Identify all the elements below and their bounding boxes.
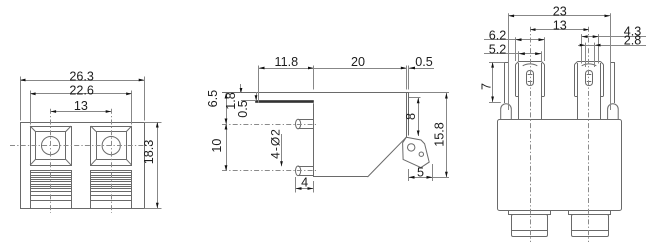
dim 6.5 line xyxy=(226,93,228,124)
svg-text:5.2: 5.2 xyxy=(489,43,507,57)
front centerline 2 xyxy=(588,27,590,242)
side view right edge double line xyxy=(406,93,408,137)
pin 2 side profile xyxy=(296,166,301,176)
dim 4.3 line xyxy=(582,36,646,38)
dim 5 extension lines xyxy=(408,169,410,181)
dim 10 line xyxy=(226,124,228,171)
svg-text:2.8: 2.8 xyxy=(624,33,642,47)
bracket hole large xyxy=(408,144,415,151)
pin 2 centerline xyxy=(222,170,316,172)
dim 0.5 plate arrow xyxy=(256,92,258,100)
svg-text:8: 8 xyxy=(404,113,418,120)
side view top edge xyxy=(222,92,409,94)
cavity 1 circle xyxy=(42,137,60,155)
svg-text:18.3: 18.3 xyxy=(142,140,156,165)
svg-text:0.5: 0.5 xyxy=(236,100,250,118)
front view body outline xyxy=(498,120,622,211)
blade 1 dimple arc xyxy=(523,64,538,66)
dim 13 front line xyxy=(530,29,589,31)
boss dome 1 xyxy=(501,104,512,120)
cavity 2 square funnel xyxy=(91,127,132,166)
svg-text:0.5: 0.5 xyxy=(415,55,433,69)
dim 20 line xyxy=(314,68,407,70)
dim 18.3 extension lines xyxy=(144,122,161,124)
bottom socket foot 2 xyxy=(569,211,611,215)
svg-text:13: 13 xyxy=(74,99,88,113)
dim 1.8 arrows xyxy=(240,84,242,93)
horizontal centerline xyxy=(10,145,152,147)
dim 5.2 line xyxy=(484,53,541,55)
svg-text:6.5: 6.5 xyxy=(206,90,220,108)
svg-text:13: 13 xyxy=(553,18,567,32)
dim 7 extension lines xyxy=(489,62,505,64)
dim 4 extension lines xyxy=(295,177,297,193)
boss dome 2 xyxy=(608,104,619,120)
dim 26.3 line xyxy=(20,80,144,82)
blade terminal 1 (face) xyxy=(515,65,517,97)
dim 4.3 extension lines xyxy=(581,34,583,63)
pin 1 side profile xyxy=(296,119,301,129)
dim 23 extension lines xyxy=(508,13,510,110)
svg-text:22.6: 22.6 xyxy=(69,83,94,97)
dim 15.8 line xyxy=(446,93,448,177)
dim 7 line xyxy=(492,62,494,102)
svg-text:15.8: 15.8 xyxy=(433,122,447,147)
dim 4 line xyxy=(296,188,314,190)
dim 18.3 line xyxy=(157,122,159,208)
svg-text:23: 23 xyxy=(553,5,567,19)
svg-text:4: 4 xyxy=(301,176,308,190)
blade terminal 2 (face) xyxy=(574,65,576,97)
terminal plate (dark) xyxy=(256,101,314,103)
side view body left face xyxy=(313,103,315,177)
dim 15.8 top extension xyxy=(409,92,449,94)
dim 6.2 extension lines xyxy=(515,37,517,61)
svg-text:20: 20 xyxy=(351,55,365,69)
blade 2 dimple arc xyxy=(582,64,597,66)
front centerline 1 xyxy=(530,27,532,242)
dim 11.8/20 extension lines xyxy=(258,66,260,104)
dim 22.6 extension lines xyxy=(30,91,32,125)
mounting bracket tab xyxy=(403,137,430,167)
svg-text:5: 5 xyxy=(417,165,424,179)
dim 26.3 extension lines xyxy=(20,77,22,121)
svg-text:10: 10 xyxy=(210,139,224,153)
dim 23 line xyxy=(509,15,610,17)
dim 5 line xyxy=(409,177,450,179)
side view bottom edge xyxy=(314,176,368,178)
dim 6.2 line xyxy=(484,39,545,41)
bracket hole small xyxy=(419,152,423,156)
svg-text:7: 7 xyxy=(479,83,493,90)
side view cover left face xyxy=(258,93,260,100)
svg-text:26.3: 26.3 xyxy=(69,69,94,83)
blade terminal 1 (edge-on) xyxy=(504,62,506,103)
blade terminal 2 (edge-on) xyxy=(610,62,612,103)
dim 11.8 line xyxy=(259,68,314,70)
svg-text:4-Ø2: 4-Ø2 xyxy=(269,128,283,159)
dim 13 line xyxy=(51,111,112,113)
cavity 1 vertical centerline xyxy=(50,109,52,213)
vent grille 2 xyxy=(91,171,132,209)
dim 0.5 line xyxy=(409,68,434,70)
dim 2.8 extension lines xyxy=(585,43,587,67)
cavity 2 circle xyxy=(102,137,120,155)
dim 22.6 line xyxy=(30,93,132,95)
cavity 1 square funnel xyxy=(31,127,72,166)
blade 1 slot hole xyxy=(527,71,534,86)
dim 5.2 extension lines xyxy=(518,51,520,62)
svg-text:6.2: 6.2 xyxy=(489,28,507,42)
vent grille 1 xyxy=(31,171,72,209)
svg-text:11.8: 11.8 xyxy=(275,55,299,69)
bottom socket foot 1 xyxy=(509,211,551,215)
label 4-Ø2 leader xyxy=(281,134,283,166)
left view body outline xyxy=(21,123,145,209)
bracket diagonal edge xyxy=(368,137,407,177)
pin 1 centerline xyxy=(222,124,316,126)
cavity 2 vertical centerline xyxy=(111,109,113,213)
cover lip extension line xyxy=(409,97,421,99)
blade 2 slot hole xyxy=(586,71,593,86)
dim 8 line xyxy=(418,98,420,136)
dim 2.8 line xyxy=(578,45,646,47)
